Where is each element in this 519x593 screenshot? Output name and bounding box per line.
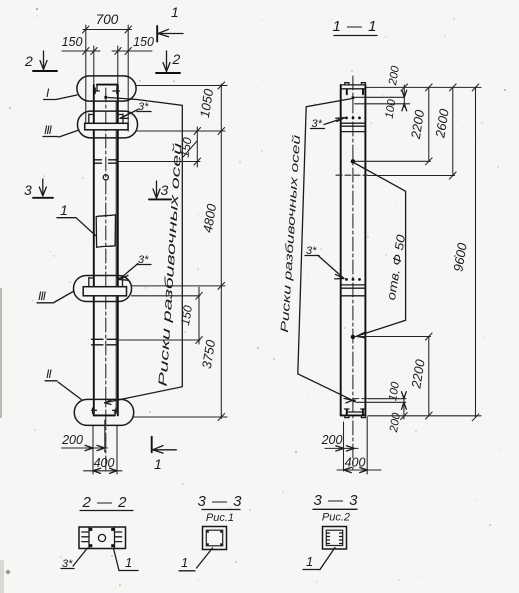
extension line right column face top (117, 46, 119, 85)
band lower: anchor dots (345, 278, 361, 281)
extension from lower hole (355, 336, 431, 338)
right-side extension line at top face (137, 85, 227, 87)
riska marks lower pair (92, 339, 118, 345)
label 1 (2-2) (114, 549, 139, 571)
label I (44, 86, 78, 100)
lower console gusset right (118, 278, 123, 287)
label III lower (37, 289, 74, 303)
dimension 200 bottom (1-1) (321, 433, 358, 451)
column right face (1-1) (364, 85, 366, 415)
band upper lines (341, 123, 366, 126)
dimension 9600 (450, 84, 478, 421)
svg-text:2: 2 (172, 51, 181, 67)
section 2-2 weld ticks (82, 532, 122, 542)
top cap (94, 85, 119, 94)
bottom extension right face (116, 425, 118, 474)
extension at lower riska (119, 339, 200, 341)
bottom cap (92, 408, 118, 415)
column right inner shade line (115, 102, 117, 412)
title 3-3 fig2 (313, 492, 359, 524)
title 2-2 (80, 494, 133, 511)
lower console gusset left (89, 278, 94, 287)
section 3-3 fig1 outer square (203, 527, 227, 550)
extension line left column face top (93, 46, 95, 85)
oval callout III upper (78, 111, 138, 138)
svg-text:1: 1 (306, 554, 313, 569)
svg-text:3 — 3: 3 — 3 (313, 492, 358, 509)
label III upper (43, 123, 79, 137)
dimension 150 right (112, 35, 154, 55)
hole circle left view (103, 175, 108, 180)
section 3-3 fig2 weld combs (327, 533, 343, 544)
oval callout III lower (74, 276, 132, 302)
bottom cap (1-1) (341, 409, 366, 418)
bottom dashed riska line (1-1) (344, 398, 367, 400)
dimension 2200 bottom (408, 333, 432, 419)
top face extension to dims (366, 86, 481, 88)
small vertical dim 100/200 bottom (387, 381, 407, 434)
scan artifacts (0, 288, 10, 593)
section mark 1 top (157, 4, 183, 42)
main chain dimension line (218, 82, 225, 421)
dimension 200 bottom (61, 433, 107, 451)
dimension 400 bottom (1-1) (337, 456, 381, 473)
svg-text:1: 1 (125, 555, 132, 570)
title 3-3 fig1 (197, 493, 242, 524)
label II (45, 367, 82, 400)
section 3-3 fig1 corner bars (207, 531, 222, 546)
hole upper (1-1) (351, 159, 355, 163)
top cap (1-1) (341, 83, 366, 95)
label 1 (3-3 fig1) (179, 548, 213, 571)
svg-text:Рис.2: Рис.2 (322, 512, 350, 524)
label 1 patch (57, 202, 96, 236)
section mark 1 bottom (152, 437, 177, 472)
hole lower (1-1) (351, 335, 355, 339)
bottom extension axis (104, 420, 106, 452)
section mark 3 right (149, 181, 171, 199)
svg-text:1: 1 (171, 4, 179, 20)
svg-text:1: 1 (60, 202, 68, 218)
svg-text:400: 400 (345, 456, 366, 470)
dimension 700 (83, 12, 132, 33)
riska marks upper pair (94, 160, 118, 163)
column center axis (105, 88, 107, 470)
svg-text:150: 150 (133, 35, 154, 49)
svg-text:Рис.1: Рис.1 (206, 512, 234, 524)
band lower lines (341, 285, 366, 288)
paper speckle noise (330, 18, 331, 19)
column left face (1-1) (340, 85, 342, 415)
patch item 1 (96, 215, 115, 248)
svg-text:200: 200 (321, 433, 343, 447)
upper console gusset right (118, 114, 123, 123)
svg-text:1: 1 (181, 555, 188, 570)
svg-text:1 — 1: 1 — 1 (332, 18, 377, 35)
riska mark top (1-1) (352, 96, 355, 99)
dimension 2600 (432, 84, 456, 179)
riska mark top (node) (104, 96, 107, 99)
lower console plate (83, 287, 126, 296)
svg-text:2 — 2: 2 — 2 (81, 494, 127, 511)
section mark 2 left (24, 51, 57, 71)
extension line right cap edge (127, 25, 129, 131)
section 3-3 fig2 outer square (323, 527, 347, 550)
extension at column bottom (134, 416, 227, 418)
extension at upper riska (119, 161, 200, 163)
svg-text:200: 200 (61, 433, 83, 447)
bottom extension left face (92, 425, 94, 474)
svg-text:3: 3 (24, 182, 32, 198)
small vertical dim 200/100 (384, 65, 408, 120)
section 2-2 corner bars (89, 528, 114, 547)
dimension 2200 top (408, 84, 432, 165)
riska reference line 1 (355, 96, 405, 98)
upper console gusset left (89, 114, 94, 123)
dashed line under upper segment (336, 174, 368, 176)
bottom reference line 1 (368, 398, 406, 400)
dimension 150 left (62, 35, 100, 55)
section 2-2 centre hole (98, 534, 105, 541)
section 3-3 fig2 inner square (326, 530, 342, 545)
dimension 400 bottom (84, 456, 123, 473)
section mark 3 left (24, 179, 53, 198)
dimension 150 lower vertical (178, 287, 202, 344)
bottom extensions for 200/400 (1-1) (344, 417, 368, 474)
extension at upper console bottom (136, 130, 225, 132)
bottom reference line 2 (356, 401, 406, 403)
left leader to riska marks (1-1) (298, 99, 353, 403)
extension at lower console top (132, 285, 226, 287)
upper console plate (85, 123, 128, 130)
label 3* lower (1-1) (305, 245, 344, 279)
column left face (93, 85, 95, 415)
riska reference line 2 (355, 103, 410, 105)
bottom riska mark (1-1) (353, 400, 356, 403)
band upper: anchor dots (345, 117, 361, 120)
column axis (1-1) (352, 76, 354, 470)
section 2-2 column walls (89, 527, 115, 549)
oval callout I (77, 76, 136, 101)
label 3* (2-2) (61, 548, 88, 570)
label 3* lower-left view (119, 254, 151, 280)
svg-text:150: 150 (62, 35, 83, 49)
column right face (117, 85, 119, 415)
svg-text:400: 400 (94, 456, 115, 470)
riska leader line (105, 98, 183, 403)
svg-text:3 — 3: 3 — 3 (197, 493, 242, 510)
section mark 2 right (156, 51, 181, 73)
svg-text:700: 700 (96, 12, 119, 27)
extension from upper hole (355, 160, 431, 162)
label 3* upper (120, 101, 151, 118)
svg-text:2: 2 (24, 53, 33, 69)
label 3* upper (1-1) (311, 118, 346, 130)
section 3-3 fig1 inner square (206, 530, 222, 546)
dimension 150 upper vertical (178, 127, 201, 167)
bottom face extension to dims (1-1) (368, 415, 481, 417)
svg-text:1: 1 (154, 456, 162, 472)
hole leader (отв. Ф 50) (355, 163, 409, 338)
oval callout II (74, 399, 133, 425)
extension from dashed line (368, 175, 455, 177)
extension at lower console bottom (132, 295, 201, 297)
section 2-2 outer plate (79, 527, 126, 549)
title 1-1 (332, 18, 377, 36)
extension line left cap edge (85, 25, 87, 124)
label 1 (3-3 fig2) (303, 548, 335, 570)
